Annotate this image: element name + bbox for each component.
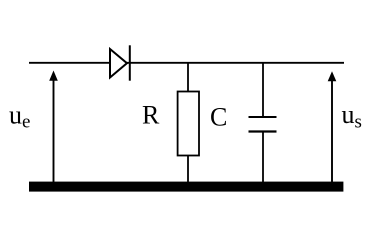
wire resistor top [187,63,189,92]
svg-text:us: us [342,100,362,133]
arrow u_s [328,71,337,183]
svg-text:C: C [210,103,227,132]
wire capacitor bottom [262,132,264,184]
ground bar [29,182,343,192]
svg-text:ue: ue [9,101,30,133]
arrow u_e [49,71,58,184]
svg-text:R: R [142,101,160,130]
wire capacitor top [262,63,264,117]
capacitor C [249,117,277,132]
resistor R [178,92,199,156]
wire resistor bottom [187,156,189,184]
top wire [29,62,344,64]
diode D1 [110,45,130,80]
